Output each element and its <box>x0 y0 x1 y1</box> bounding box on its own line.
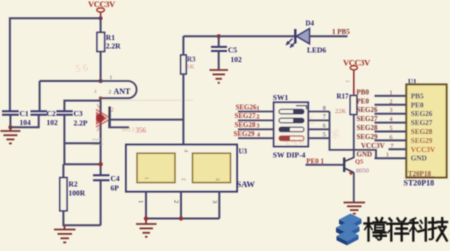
svg-text:LED6: LED6 <box>307 46 326 55</box>
svg-text:C4: C4 <box>111 174 120 183</box>
wire main vertical through transistor <box>100 98 102 175</box>
svg-text:102: 102 <box>47 118 59 127</box>
ground below C5 <box>210 70 229 83</box>
svg-text:U3: U3 <box>239 148 248 156</box>
U1 inside pin names <box>411 92 436 162</box>
logo text ke <box>410 218 426 240</box>
svg-text:1: 1 <box>110 75 113 81</box>
svg-text:100R: 100R <box>69 189 86 198</box>
svg-text:2: 2 <box>173 200 180 203</box>
wire R2 riser <box>62 164 64 177</box>
switch SW1 SW DIP-4 <box>273 93 308 160</box>
svg-text:4: 4 <box>257 133 260 139</box>
wire Q5 emitter to ground <box>353 173 355 203</box>
wire SW1 common bus <box>330 112 377 159</box>
diode D4 LED6 <box>286 20 348 55</box>
U1 pin numbers <box>386 90 394 158</box>
svg-text:6P: 6P <box>111 184 120 193</box>
svg-text:SEG29: SEG29 <box>357 133 379 141</box>
wire SEG26 to SW1 <box>238 111 274 113</box>
svg-text:ST20P18: ST20P18 <box>404 179 435 188</box>
ground below C1 <box>0 127 20 143</box>
svg-text:ANT: ANT <box>114 87 132 96</box>
wire C3 loop top <box>64 101 100 112</box>
resistor R17 <box>335 93 357 116</box>
node junction dot at C4 top <box>98 162 102 166</box>
wire SEG27 to SW1 <box>238 119 274 121</box>
svg-text:1: 1 <box>137 200 144 203</box>
logo text ji <box>429 218 447 240</box>
U1 outside net labels <box>357 88 385 158</box>
svg-text:1 PB5: 1 PB5 <box>332 28 350 36</box>
capacitor C2 <box>31 81 59 127</box>
node junction dot C1 bottom <box>8 125 12 129</box>
capacitor C4 <box>93 174 120 225</box>
capacitor C1 <box>2 109 31 127</box>
svg-text:Q5: Q5 <box>355 159 364 166</box>
svg-text:22K: 22K <box>335 108 347 115</box>
ground below Q5 <box>344 203 366 214</box>
svg-text:C3: C3 <box>74 109 83 118</box>
antenna ANT loop <box>94 75 137 98</box>
ground below SAW <box>136 219 157 237</box>
wire SAW pin 3 <box>218 192 220 219</box>
svg-text:SEG28: SEG28 <box>357 124 379 132</box>
logo text zun <box>365 218 386 241</box>
wire VCC to R1 <box>100 18 102 32</box>
wire collector horizontal to R3 column <box>110 119 184 121</box>
svg-text:1: 1 <box>390 90 393 96</box>
wire SEG29 to SW1 <box>238 137 274 139</box>
U1 pin wires <box>375 96 407 158</box>
node junction dots SAW <box>144 216 183 220</box>
wire C3 loop bottom <box>64 115 100 143</box>
wire R1 bottom to base node <box>100 52 102 82</box>
pin numbers SW1 right <box>323 106 326 139</box>
svg-text:1: 1 <box>386 153 389 159</box>
wire PE0 to Q5 base <box>306 164 345 166</box>
svg-text:2.2R: 2.2R <box>106 42 121 51</box>
SAW device U3 <box>126 145 255 192</box>
svg-text:VCC3V: VCC3V <box>361 142 385 150</box>
faint ghost capacitor marks <box>92 100 193 144</box>
node junction dot bottom of antenna <box>99 96 103 100</box>
svg-text:R3: R3 <box>187 56 196 64</box>
wires SW1 right pins <box>308 112 329 139</box>
svg-text:3: 3 <box>211 200 218 203</box>
svg-text:2: 2 <box>109 90 112 96</box>
svg-text:SW1: SW1 <box>273 93 289 102</box>
capacitor C3 <box>56 109 88 128</box>
svg-text:C2: C2 <box>47 109 56 118</box>
pin number labels SAW <box>137 200 218 203</box>
svg-text:C1: C1 <box>20 109 29 118</box>
ground below R2 <box>54 225 76 242</box>
svg-text:2: 2 <box>390 99 393 105</box>
svg-text:SEG26: SEG26 <box>411 110 433 118</box>
logo text xiang <box>387 219 408 241</box>
wire C2 bottom link <box>10 115 38 128</box>
svg-text:6: 6 <box>390 135 393 141</box>
transistor Q1 9018 <box>96 104 147 134</box>
svg-text:5: 5 <box>390 126 393 132</box>
net label PE0 <box>306 158 324 166</box>
svg-text:PE0: PE0 <box>411 101 424 109</box>
resistor R2 <box>60 178 86 211</box>
svg-text:4: 4 <box>183 150 189 153</box>
wire SAW pin 2 <box>180 192 182 219</box>
wire VCC rail horizontal to left edge <box>10 18 101 111</box>
transistor Q5 <box>344 158 369 176</box>
node junction at VCC rail <box>99 16 103 20</box>
svg-text:SEG29: SEG29 <box>411 137 433 145</box>
svg-text:SEG27: SEG27 <box>357 115 379 123</box>
wire top rail <box>183 35 295 37</box>
power VCC3V right symbol <box>343 58 371 96</box>
logo cube <box>336 214 362 246</box>
svg-text:SEG29: SEG29 <box>234 130 256 138</box>
svg-text:104: 104 <box>20 118 32 127</box>
svg-text:GND: GND <box>411 155 427 163</box>
svg-text:2.2P: 2.2P <box>74 119 88 128</box>
svg-text:VCC3V: VCC3V <box>411 146 436 154</box>
wire SAW pin 1 <box>145 192 147 219</box>
svg-text:1K: 1K <box>187 64 195 71</box>
net labels SEG26-29 left of SW1 <box>234 103 261 138</box>
svg-text:8: 8 <box>323 106 326 112</box>
wire SAW bottom rail <box>146 218 219 220</box>
node junction dot at C5 <box>217 34 221 38</box>
svg-text:7: 7 <box>391 144 394 150</box>
svg-text:D4: D4 <box>306 20 315 28</box>
connector U1 <box>406 78 446 178</box>
watermark smudges <box>75 62 360 151</box>
wire R3 bottom to SAW pin4 <box>182 74 184 145</box>
svg-text:PB5: PB5 <box>411 92 424 100</box>
svg-text:SEG27: SEG27 <box>411 119 433 127</box>
svg-text:5 6: 5 6 <box>75 62 89 75</box>
wire emitter stub <box>109 120 129 128</box>
capacitor C5 <box>211 36 242 70</box>
wire SEG28 to SW1 <box>238 128 274 130</box>
resistor R3 <box>181 55 196 74</box>
svg-text:6: 6 <box>323 124 326 130</box>
svg-text:102: 102 <box>231 55 243 64</box>
svg-text:SEG26: SEG26 <box>236 103 258 111</box>
wire R3 top to rail <box>182 36 184 55</box>
svg-text:1: 1 <box>257 106 260 112</box>
svg-text:3: 3 <box>390 108 393 114</box>
wire R17 to Q5 collector <box>353 115 355 159</box>
svg-text:SW DIP-4: SW DIP-4 <box>273 151 306 160</box>
svg-text:R17: R17 <box>337 93 350 101</box>
net label 1 PB5 <box>332 28 350 36</box>
svg-text:7: 7 <box>323 115 326 121</box>
svg-text:PE0: PE0 <box>357 97 370 105</box>
svg-text:2: 2 <box>111 107 114 114</box>
svg-text:R2: R2 <box>69 180 78 189</box>
svg-text:SEG28: SEG28 <box>411 128 433 136</box>
node junction dot top of antenna <box>99 79 103 83</box>
resistor R1 <box>97 32 121 51</box>
svg-text:356: 356 <box>136 126 147 134</box>
svg-text:4: 4 <box>390 117 393 123</box>
wire R2 branch <box>64 143 100 164</box>
svg-text:8050: 8050 <box>356 168 369 175</box>
svg-text:SEG26: SEG26 <box>357 106 379 114</box>
power VCC3V left symbol <box>88 0 116 18</box>
svg-text:SAW: SAW <box>237 179 256 189</box>
svg-text:5: 5 <box>323 133 326 139</box>
svg-text:GND: GND <box>357 151 373 159</box>
svg-text:C5: C5 <box>228 46 237 55</box>
label ST20P18 <box>404 179 435 188</box>
wire C2 top to base node <box>40 80 101 82</box>
wire R2 bottom <box>63 211 100 226</box>
svg-text:SEG28: SEG28 <box>235 121 257 129</box>
